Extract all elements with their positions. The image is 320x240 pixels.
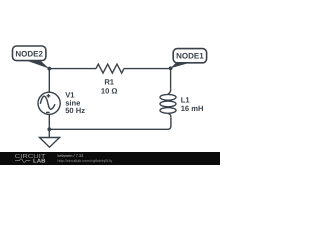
inductor L1 xyxy=(170,69,172,89)
svg-text:R1: R1 xyxy=(104,78,114,87)
wire top-right segment xyxy=(124,68,171,70)
wire top-left segment xyxy=(49,68,96,70)
wire bottom xyxy=(49,117,171,129)
svg-text:L1: L1 xyxy=(181,96,191,105)
svg-text:NODE1: NODE1 xyxy=(176,52,204,61)
svg-text:50 Hz: 50 Hz xyxy=(65,106,85,115)
svg-text:NODE2: NODE2 xyxy=(15,49,43,58)
node A junction dot xyxy=(47,67,51,71)
svg-text:10 Ω: 10 Ω xyxy=(101,86,118,95)
node C junction dot xyxy=(47,127,51,131)
flag NODE1 xyxy=(171,49,207,69)
voltage source V1 xyxy=(38,92,60,114)
wire left vertical upper xyxy=(48,69,50,93)
ground xyxy=(48,129,50,137)
flag NODE2 xyxy=(13,46,50,69)
svg-text:16 mH: 16 mH xyxy=(181,104,204,113)
watermark bar xyxy=(0,152,220,165)
svg-text:kelarnen / 7.33: kelarnen / 7.33 xyxy=(58,153,84,158)
node B junction dot xyxy=(169,66,173,70)
wire left vertical lower xyxy=(48,114,50,129)
svg-text:http.//circuitlab.com/c/gfbdnh: http.//circuitlab.com/c/gfbdnhj5t3y xyxy=(58,159,113,163)
svg-text:LAB: LAB xyxy=(33,158,46,164)
resistor R1 xyxy=(96,64,124,73)
